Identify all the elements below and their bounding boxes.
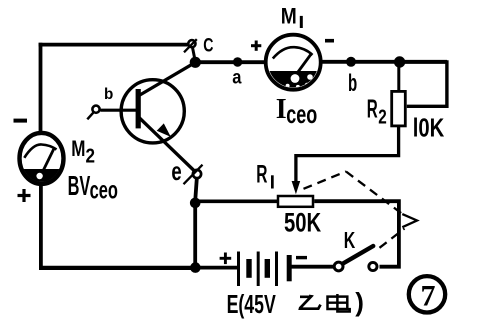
svg-text:BV: BV — [68, 170, 91, 201]
svg-text:7: 7 — [421, 280, 436, 313]
potentiometer wiper arrow — [292, 181, 301, 194]
label char yi — [300, 295, 321, 309]
polarity - of M1 — [325, 39, 334, 43]
svg-text:b: b — [348, 70, 357, 97]
wire base lead — [101, 109, 137, 112]
wire battery left lead — [195, 266, 237, 270]
wire M1 to top-right corner — [319, 60, 447, 64]
svg-text:50K: 50K — [284, 208, 321, 238]
node a — [233, 57, 242, 66]
label BVceo — [68, 170, 118, 205]
terminal b — [87, 106, 99, 120]
label M1 — [281, 3, 303, 28]
svg-text:l0K: l0K — [413, 113, 445, 143]
node bottom junction — [190, 262, 201, 273]
svg-text:M: M — [71, 136, 85, 161]
polarity - of M2 — [14, 119, 28, 123]
svg-text:a: a — [232, 66, 241, 88]
node R2 top junction — [394, 56, 405, 67]
svg-text:): ) — [355, 287, 364, 317]
wire switch to battery — [292, 265, 335, 269]
svg-text:ceo: ceo — [90, 177, 118, 205]
wire M2 bottom lead — [39, 183, 43, 268]
node e junction — [190, 198, 201, 209]
wire R1 right to switch — [314, 201, 399, 267]
wire left rail — [39, 43, 43, 133]
resistor R2 — [392, 62, 406, 126]
wire C to collector junction — [193, 48, 196, 61]
label R1 — [256, 161, 274, 189]
wire emitter column — [195, 179, 197, 268]
polarity + of battery — [220, 253, 232, 265]
svg-text:2: 2 — [86, 146, 96, 168]
wire collector junction to M1 — [195, 60, 268, 64]
dashed mechanical link switch to chevron — [380, 229, 405, 248]
node collector junction — [190, 57, 201, 68]
label M2 — [71, 136, 95, 167]
terminal e — [184, 165, 203, 185]
svg-text:K: K — [344, 227, 356, 253]
wire top rail — [39, 43, 189, 47]
wire R2 bypass loop — [400, 62, 447, 106]
potentiometer R1 — [278, 196, 313, 207]
transistor Q1 — [121, 62, 195, 171]
svg-text:2: 2 — [378, 107, 387, 129]
dashed mechanical link pot to peak — [304, 172, 347, 189]
svg-text:E(45V: E(45V — [227, 291, 276, 319]
label char dian — [328, 294, 350, 312]
chevron arrow — [402, 214, 417, 227]
dashed mechanical link peak to chevron — [346, 172, 403, 215]
meter M2 — [17, 133, 66, 186]
figure number 7 — [409, 276, 445, 312]
wire R2 bottom to wiper — [296, 127, 399, 184]
polarity + of M1 — [251, 41, 261, 51]
svg-text:I: I — [276, 94, 287, 125]
polarity - of battery — [296, 256, 307, 259]
svg-text:C: C — [203, 34, 213, 56]
svg-text:e: e — [171, 156, 181, 186]
wire R1 left lead — [195, 199, 278, 203]
svg-text:R: R — [367, 94, 378, 124]
node b (net) — [346, 57, 356, 67]
svg-text:ceo: ceo — [286, 99, 317, 129]
switch K — [334, 246, 377, 271]
wire bottom rail — [39, 266, 197, 270]
svg-text:R: R — [256, 161, 267, 189]
meter M1 — [266, 35, 321, 92]
polarity + of M2 — [18, 189, 31, 202]
terminal C — [184, 39, 197, 52]
label Iceo — [276, 94, 318, 129]
battery E — [239, 252, 290, 287]
svg-text:M: M — [281, 3, 297, 28]
svg-text:b: b — [104, 86, 113, 103]
label R2 — [367, 94, 387, 129]
